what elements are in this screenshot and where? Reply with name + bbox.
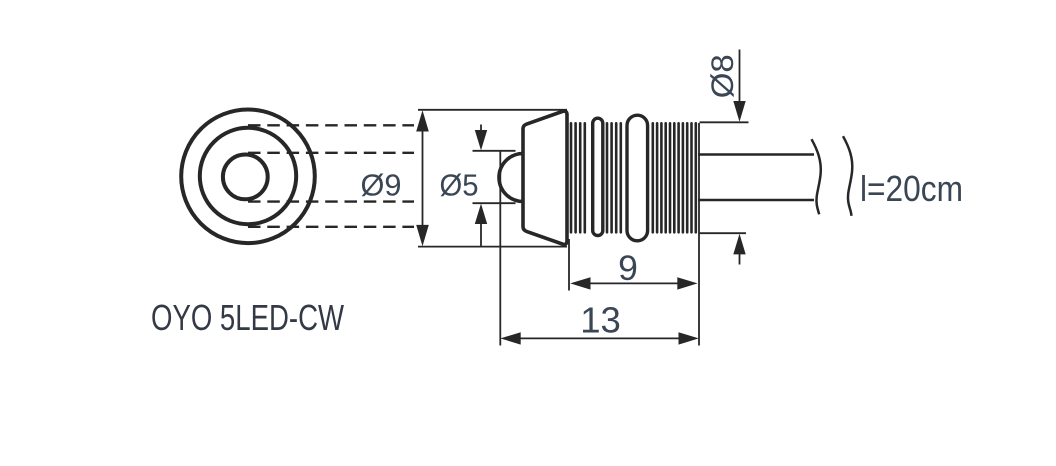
dimension 9: dimension line <box>589 282 679 284</box>
LED lens dome <box>499 154 523 202</box>
dashed projection line 1 <box>248 124 414 126</box>
svg-text:9: 9 <box>618 248 638 288</box>
dimension D5: tick top <box>473 150 516 152</box>
dashed projection line 2 <box>248 152 414 154</box>
extension line left of threads <box>568 239 570 291</box>
dimension 13: arrow left <box>500 332 520 344</box>
threaded body: thread lines <box>571 123 696 232</box>
extension line for 13 (front of lens) <box>499 152 501 346</box>
dimension D5: lower shaft <box>480 223 482 247</box>
dimension D8: upper shaft <box>739 50 741 103</box>
dimension 9: arrow left <box>570 277 590 289</box>
extension line right of threads <box>698 123 700 346</box>
dimension D9: arrow up <box>416 110 429 131</box>
dimension D5: arrow down <box>475 130 487 150</box>
dashed projection line 4 <box>248 226 414 228</box>
svg-text:Ø8: Ø8 <box>704 54 740 98</box>
cable break curve 2 <box>843 136 852 216</box>
cable bottom edge <box>698 199 814 202</box>
dimension D5: upper shaft <box>480 125 482 132</box>
svg-text:13: 13 <box>580 300 621 341</box>
dimension D9: dimension line <box>422 130 424 226</box>
svg-text:OYO 5LED-CW: OYO 5LED-CW <box>151 297 344 338</box>
dashed projection line 3 <box>248 200 414 202</box>
dimension D9: extension line top <box>418 109 567 111</box>
dimension D8: arrow down <box>733 101 745 122</box>
dimension 13: arrow right <box>679 332 699 344</box>
cable break curve 1 <box>812 139 821 214</box>
dimension D5: arrow up <box>475 204 487 224</box>
dimension D9: extension line bottom <box>418 246 567 248</box>
dimension D9: arrow down <box>416 225 429 246</box>
front view: outer circle (bezel flange) <box>181 110 315 244</box>
smooth band 1 <box>593 118 603 235</box>
dimension D8: extension line top <box>700 121 749 123</box>
front view: middle circle <box>200 128 296 224</box>
svg-text:Ø9: Ø9 <box>361 169 402 203</box>
dimension 13: dimension line <box>519 337 680 339</box>
dimension D8: extension line bottom <box>700 232 747 234</box>
dimension D5: tick bottom <box>473 202 516 204</box>
dimension D8: lower shaft <box>739 254 741 265</box>
cable top edge <box>698 153 814 156</box>
svg-text:l=20cm: l=20cm <box>860 168 963 209</box>
front view: inner circle (LED lens) <box>223 155 268 200</box>
dimension 9: arrow right <box>677 277 697 289</box>
dimension D8: arrow up <box>733 234 745 255</box>
svg-text:Ø5: Ø5 <box>440 169 479 203</box>
bezel head (trapezoid) <box>523 111 567 244</box>
smooth band 2 <box>627 115 648 241</box>
